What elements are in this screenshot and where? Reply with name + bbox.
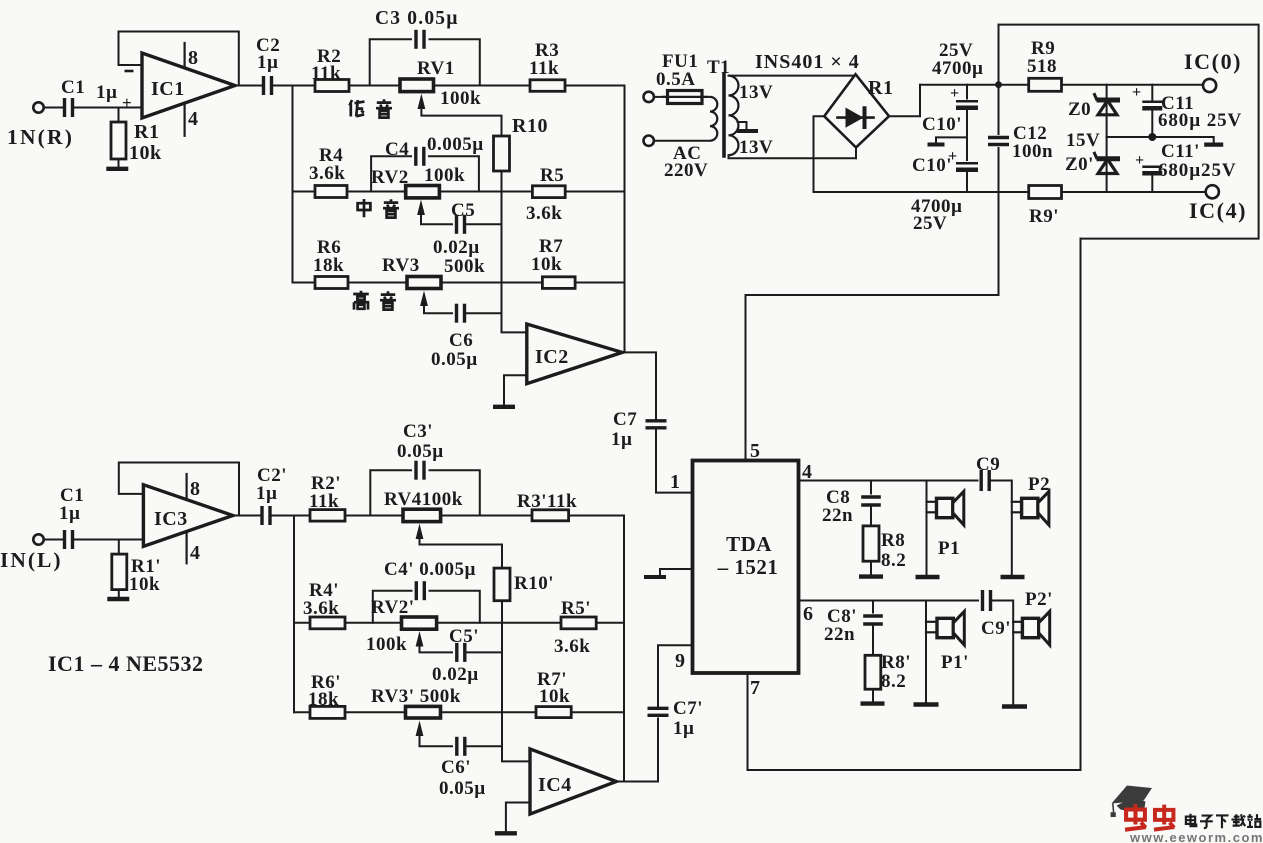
svg-text:R5: R5 — [540, 165, 564, 186]
svg-text:C3': C3' — [403, 421, 433, 442]
wire row3 from bus to R6 — [293, 282, 316, 284]
svg-text:4: 4 — [802, 461, 813, 483]
svg-text:R1: R1 — [868, 77, 893, 99]
wire C1 to IC3 + input — [75, 539, 144, 541]
watermark chongchong red characters — [1125, 804, 1146, 830]
svg-text:1µ: 1µ — [257, 52, 278, 73]
wire mid rail between zeners to ground — [1107, 137, 1214, 142]
svg-text:10k: 10k — [129, 142, 162, 164]
resistor R3 11k — [530, 80, 565, 92]
svg-text:C4' 0.005µ: C4' 0.005µ — [384, 559, 476, 580]
svg-text:R10': R10' — [514, 573, 554, 594]
ground under P1 — [916, 575, 940, 579]
svg-text:0.05µ: 0.05µ — [439, 778, 486, 799]
wire IC4 output to C7' — [616, 719, 658, 782]
RV3 wiper arrow — [420, 291, 428, 307]
wire R5' to right bus left channel — [596, 622, 624, 624]
svg-text:100k: 100k — [424, 165, 465, 186]
wire C5' to bus — [467, 651, 502, 653]
wire C5 to bus — [467, 223, 502, 225]
resistor R6 18k — [315, 277, 348, 289]
resistor R9' — [1029, 186, 1062, 199]
label mid (zhongyin) — [358, 199, 371, 217]
svg-text:+: + — [950, 85, 960, 102]
potentiometer RV2' 100k — [402, 617, 437, 629]
svg-text:R10: R10 — [512, 115, 548, 137]
op-amp IC1 — [142, 53, 235, 118]
svg-text:1µ: 1µ — [673, 718, 694, 739]
resistor R8 8.2 — [870, 506, 872, 526]
svg-text:RV4100k: RV4100k — [384, 489, 463, 510]
wire bridge bottom stub — [855, 148, 857, 159]
resistor R9 518 — [1029, 78, 1062, 91]
svg-text:R9': R9' — [1029, 206, 1059, 227]
wire R3' to right bus left channel — [569, 515, 624, 517]
junction dot positive rail — [995, 81, 1002, 88]
svg-text:+: + — [1132, 84, 1142, 101]
transformer T1 secondary coil — [729, 76, 739, 156]
svg-text:100n: 100n — [1012, 141, 1053, 162]
svg-text:C7: C7 — [613, 409, 637, 430]
svg-text:10k: 10k — [129, 574, 160, 595]
svg-text:25V: 25V — [913, 213, 947, 234]
wire R4 to RV2 — [347, 191, 407, 193]
wire bridge left vertex to negative rail — [814, 116, 825, 192]
svg-text:3.6k: 3.6k — [526, 203, 562, 224]
svg-text:11k: 11k — [309, 491, 339, 512]
svg-text:C9': C9' — [981, 618, 1011, 639]
wire R5 to right bus — [565, 191, 624, 193]
svg-text:R1: R1 — [134, 121, 159, 143]
wire right feedback bus left channel — [623, 516, 625, 782]
wire input to C1 — [44, 107, 62, 109]
svg-text:518: 518 — [1027, 56, 1057, 77]
wire R10' down summing bus to IC4 - input — [502, 601, 530, 762]
capacitor C7' 1u — [648, 707, 669, 710]
svg-text:10k: 10k — [531, 254, 562, 275]
capacitor C3' 0.05u loop wire — [370, 470, 411, 515]
wire R10 down the summing bus to IC2 - input — [502, 171, 527, 332]
transformer T1 core — [722, 74, 726, 156]
svg-text:3.6k: 3.6k — [309, 163, 345, 184]
wire IC4 + input to ground — [506, 803, 530, 832]
svg-text:R5': R5' — [561, 598, 591, 619]
svg-text:C6': C6' — [441, 757, 471, 778]
resistor R10' — [494, 568, 510, 601]
capacitor C4' 0.005u loop wire — [373, 591, 412, 623]
wire IC3 feedback loop — [119, 463, 239, 516]
resistor R4 3.6k — [315, 186, 347, 198]
wire RV3' to R7' — [441, 711, 537, 713]
svg-text:4700µ: 4700µ — [932, 58, 983, 79]
svg-text:P1': P1' — [941, 652, 969, 673]
amplifier U TDA-1521 box — [693, 461, 799, 674]
svg-text:22n: 22n — [822, 505, 853, 526]
svg-text:P2': P2' — [1025, 589, 1053, 610]
ground under P2 — [1001, 575, 1025, 579]
wire C6 to bus — [467, 312, 502, 314]
capacitor C2 1u — [262, 76, 265, 95]
capacitor C9 — [980, 470, 983, 491]
svg-text:R8: R8 — [881, 530, 905, 551]
wire R6 to RV3 — [348, 282, 407, 284]
svg-text:IC1: IC1 — [151, 78, 185, 100]
svg-text:0.05µ: 0.05µ — [397, 441, 444, 462]
ground IC4 — [495, 831, 517, 835]
svg-text:C3 0.05µ: C3 0.05µ — [375, 8, 459, 29]
wire bridge right vertex to positive rail — [889, 85, 920, 117]
wire positive supply rail — [920, 84, 1203, 86]
junction dot mid rail — [1148, 133, 1156, 141]
svg-text:5: 5 — [750, 440, 761, 462]
svg-text:7: 7 — [750, 677, 761, 699]
capacitor C6' 0.05u plates — [455, 737, 458, 756]
node IN(L) input terminal — [33, 534, 43, 544]
wire C9 to P2 — [991, 481, 1012, 575]
ground IC2 — [493, 405, 515, 409]
svg-text:www.eeworm.com: www.eeworm.com — [1129, 830, 1263, 843]
svg-text:C7': C7' — [673, 698, 703, 719]
speaker P1 — [926, 481, 928, 575]
svg-text:IC3: IC3 — [154, 508, 188, 530]
svg-text:C9: C9 — [976, 454, 1000, 475]
wire negative supply rail — [814, 191, 1206, 193]
svg-text:0.02µ: 0.02µ — [432, 664, 479, 685]
wire input to C1 left — [44, 539, 62, 541]
node IC(0) output terminal — [1203, 79, 1216, 92]
svg-text:1µ: 1µ — [59, 503, 80, 524]
wire C2' to R2' — [272, 515, 310, 517]
svg-text:680µ 25V: 680µ 25V — [1158, 110, 1242, 131]
op-amp IC3 — [143, 485, 233, 547]
svg-text:9: 9 — [675, 650, 686, 672]
wire RV2' to R5' — [437, 622, 561, 624]
svg-text:IC2: IC2 — [535, 346, 569, 368]
wire C9' to P2' — [992, 601, 1013, 705]
node IN(R) input terminal — [33, 102, 43, 112]
capacitor C1 1u left — [63, 530, 66, 549]
capacitor C3 plates — [414, 30, 417, 49]
RV4 wiper arrow — [416, 524, 424, 540]
resistor R5' 3.6k — [561, 617, 596, 629]
resistor R5 3.6k — [532, 186, 565, 198]
wire supply outer box — [999, 25, 1259, 239]
wire R6' to RV3' — [345, 711, 406, 713]
svg-text:P1: P1 — [938, 538, 960, 559]
svg-text:T1: T1 — [707, 57, 730, 78]
ground mid rail — [1204, 143, 1223, 147]
svg-text:500k: 500k — [444, 256, 485, 277]
pin 6 output wire — [799, 600, 979, 602]
wire C2 to R2, node A — [274, 85, 315, 87]
capacitor C6 0.05u plates — [455, 304, 458, 323]
ground at C10 midpoint — [936, 137, 967, 142]
capacitor C10' upper 4700u 25V — [966, 85, 968, 99]
svg-text:IN(L): IN(L) — [0, 548, 63, 572]
svg-text:IC4: IC4 — [538, 774, 572, 796]
node AC terminal 1 — [644, 92, 654, 102]
wire RV2 to R5 — [439, 191, 532, 193]
RV2' wiper arrow — [416, 631, 424, 647]
RV1 wiper arrow — [418, 94, 426, 110]
capacitor C1 1u — [63, 98, 66, 117]
capacitor C3' plates — [414, 461, 417, 480]
speaker P2' — [1013, 621, 1023, 623]
svg-text:C11': C11' — [1161, 141, 1200, 162]
wire left bus down left channel — [293, 516, 295, 713]
svg-text:TDA: TDA — [726, 532, 772, 556]
RV3' wiper arrow — [416, 721, 424, 737]
capacitor C2' 1u — [260, 506, 263, 525]
wire IC1 output to C2 — [235, 85, 262, 87]
svg-text:1µ: 1µ — [611, 429, 632, 450]
op-amp IC4 — [530, 749, 616, 814]
resistor R1 10k — [118, 108, 120, 123]
resistor R6' 18k — [310, 706, 345, 718]
svg-text:1N(R): 1N(R) — [7, 125, 74, 149]
wire left bus down from node A — [292, 86, 294, 283]
wire row2' from bus to R4' — [294, 622, 310, 624]
svg-text:11k: 11k — [529, 58, 559, 79]
potentiometer RV1 100k — [400, 79, 434, 92]
capacitor C10' lower 4700u 25V — [956, 162, 978, 164]
wire RV3 to R7 — [441, 282, 542, 284]
svg-text:RV3: RV3 — [382, 255, 420, 276]
svg-text:4: 4 — [190, 542, 201, 564]
fuse FU1 0.5A — [654, 96, 668, 98]
svg-text:RV3' 500k: RV3' 500k — [371, 686, 461, 707]
wire C7 to TDA pin 1 — [656, 430, 693, 493]
svg-text:+: + — [948, 148, 958, 165]
zener diode Z0' — [1097, 156, 1121, 161]
TDA ground pin — [660, 569, 693, 575]
ground under R8 — [859, 574, 883, 578]
pin 8 IC1 — [184, 43, 186, 68]
resistor R1' 10k — [118, 540, 120, 555]
node AC terminal 2 — [644, 136, 654, 146]
resistor R4' 3.6k — [310, 617, 345, 629]
capacitor C11' 680u 25V — [1142, 166, 1162, 168]
svg-text:C5': C5' — [449, 626, 479, 647]
speaker P1' — [925, 601, 927, 703]
svg-text:8: 8 — [190, 478, 201, 500]
wire R2' to RV4 — [345, 515, 404, 517]
wire IC3 output to C2' — [233, 515, 260, 517]
ground under R1 — [106, 167, 128, 171]
svg-text:13V: 13V — [739, 137, 773, 158]
bridge diode symbol — [846, 108, 864, 128]
capacitor C3 0.05u bridge loop wire — [370, 39, 411, 85]
pin 4 IC1 — [184, 104, 186, 136]
svg-text:RV2: RV2 — [371, 167, 409, 188]
resistor R7 10k — [542, 277, 575, 289]
wire R7' to right bus left channel — [571, 711, 624, 713]
svg-text:6: 6 — [803, 603, 814, 625]
svg-text:C1: C1 — [61, 77, 85, 98]
svg-text:+: + — [122, 93, 132, 112]
svg-text:IC1 – 4 NE5532: IC1 – 4 NE5532 — [48, 651, 204, 676]
speaker P2 — [1012, 501, 1023, 503]
svg-text:Z0': Z0' — [1065, 154, 1094, 175]
potentiometer RV4 100k — [403, 509, 441, 521]
RV2 wiper arrow — [417, 200, 425, 216]
pin 8 IC3 — [186, 474, 188, 500]
svg-text:1: 1 — [670, 471, 681, 493]
wire RV4 to R3' — [441, 515, 532, 517]
wire row2 from bus to R4 — [293, 191, 316, 193]
svg-text:0.005µ: 0.005µ — [427, 134, 484, 155]
svg-text:RV1: RV1 — [417, 58, 455, 79]
svg-text:Z0: Z0 — [1068, 99, 1091, 120]
svg-text:680µ25V: 680µ25V — [1158, 160, 1236, 181]
watermark site name characters — [1186, 814, 1196, 826]
svg-text:18k: 18k — [308, 689, 339, 710]
wire C7' to TDA pin 9 — [658, 645, 693, 706]
svg-text:100k: 100k — [366, 634, 407, 655]
wire C6' to bus — [467, 745, 502, 747]
capacitor C5 0.02u plates — [455, 215, 458, 234]
svg-text:1µ: 1µ — [256, 483, 277, 504]
capacitor C4 plates — [414, 147, 417, 166]
wire IC2 output to C7 — [622, 352, 656, 418]
resistor R7' 10k — [536, 707, 571, 718]
ground under R8' — [861, 701, 885, 705]
wire R3 to right bus — [565, 85, 625, 87]
svg-text:+: + — [1135, 152, 1145, 169]
svg-text:0.02µ: 0.02µ — [433, 237, 480, 258]
svg-text:100k: 100k — [440, 88, 481, 109]
wire R4' to RV2' — [345, 622, 402, 624]
svg-text:C4: C4 — [385, 139, 409, 160]
wire secondary bottom to bridge — [729, 155, 857, 158]
svg-text:22n: 22n — [824, 624, 855, 645]
svg-text:0.05µ: 0.05µ — [431, 349, 478, 370]
svg-text:8.2: 8.2 — [881, 671, 906, 692]
wire right feedback bus — [624, 86, 626, 353]
svg-text:18k: 18k — [313, 255, 344, 276]
resistor R3' 11k — [532, 510, 569, 521]
svg-text:IC(4): IC(4) — [1189, 198, 1247, 223]
svg-text:– 1521: – 1521 — [717, 555, 779, 579]
svg-text:C5: C5 — [451, 200, 475, 221]
svg-text:3.6k: 3.6k — [303, 598, 339, 619]
svg-text:RV2': RV2' — [371, 597, 415, 618]
wire R7 to right bus — [575, 282, 624, 284]
resistor R8' 8.2 — [872, 625, 874, 656]
wire fuse to transformer primary — [702, 96, 710, 98]
svg-text:13V: 13V — [739, 82, 773, 103]
resistor R10 — [494, 136, 510, 171]
svg-text:0.5A: 0.5A — [656, 69, 695, 90]
wire RV1 to R3 — [434, 85, 531, 87]
pin 4 output wire — [799, 480, 978, 482]
potentiometer RV3 500k — [407, 277, 441, 289]
svg-text:1µ: 1µ — [96, 82, 117, 103]
potentiometer RV3' 500k — [406, 706, 441, 718]
svg-text:P2: P2 — [1028, 474, 1050, 495]
svg-text:15V: 15V — [1066, 130, 1100, 151]
ground under P2' — [1002, 704, 1027, 708]
svg-text:IC(0): IC(0) — [1184, 49, 1242, 74]
svg-text:8: 8 — [188, 47, 199, 69]
svg-text:C10': C10' — [912, 155, 952, 176]
op-amp IC2 — [527, 324, 622, 384]
resistor R2 11k — [315, 80, 349, 92]
resistor R2' 11k — [310, 510, 345, 521]
minus input mark IC1 — [125, 70, 134, 73]
capacitor C12 100n — [998, 25, 1000, 134]
wire zener branch — [1106, 85, 1108, 192]
svg-text:R8': R8' — [881, 652, 911, 673]
watermark graduation cap icon — [1112, 786, 1153, 804]
label treble (gaoyin) — [353, 291, 369, 310]
svg-text:4: 4 — [188, 108, 199, 130]
capacitor C8 22n — [870, 481, 872, 494]
svg-text:10k: 10k — [539, 686, 570, 707]
wire secondary top to bridge — [729, 75, 856, 77]
pin 5 wire to +supply — [746, 192, 999, 461]
capacitor C4 0.005u loop wire — [371, 156, 411, 191]
pin 4 IC3 — [186, 532, 188, 564]
svg-text:C10': C10' — [922, 114, 962, 135]
potentiometer RV2 100k — [406, 186, 440, 198]
node IC(4) output terminal — [1206, 185, 1219, 198]
capacitor C11 680u 25V — [1151, 85, 1153, 100]
capacitor C7 1u — [646, 419, 667, 422]
capacitor C4' plates — [415, 581, 418, 600]
pin 7 wire around to supply bottom — [748, 239, 1081, 770]
svg-text:11k: 11k — [311, 63, 341, 84]
label bass (diyin) — [350, 100, 365, 117]
svg-text:220V: 220V — [664, 160, 708, 181]
capacitor C5' 0.02u plates — [455, 643, 458, 662]
svg-text:INS401 × 4: INS401 × 4 — [755, 51, 860, 73]
wire row3' from bus to R6' — [294, 711, 310, 713]
wire IC2 + input to ground — [504, 375, 527, 404]
ground under R1' — [107, 597, 129, 601]
wire IC1 feedback loop — [119, 32, 239, 86]
bridge rectifier R1 diamond — [824, 74, 889, 147]
svg-text:C6: C6 — [449, 330, 473, 351]
capacitor C8' 22n — [872, 601, 874, 613]
capacitor C9' — [981, 590, 984, 611]
svg-text:8.2: 8.2 — [881, 550, 906, 571]
wire C1 to IC1 + input — [75, 107, 142, 109]
svg-text:R3'11k: R3'11k — [517, 491, 577, 512]
ground under P1' — [914, 702, 939, 706]
zener diode Z0 15V — [1097, 98, 1121, 103]
wire R2 to RV1 — [349, 85, 400, 87]
transformer T1 primary coil — [710, 97, 717, 141]
svg-text:3.6k: 3.6k — [554, 636, 590, 657]
transformer center tap ground — [738, 122, 747, 129]
